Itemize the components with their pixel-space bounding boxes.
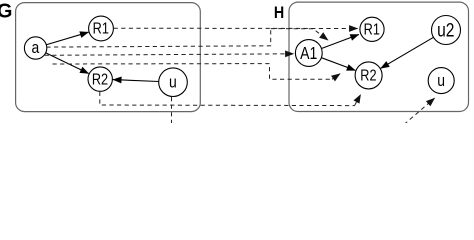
edge A1->R2 (H)	[321, 58, 355, 71]
node A1 (H)	[295, 40, 322, 67]
dashed edge-map a-R2 edge to A1-R2 edge	[53, 64, 341, 80]
svg-text:A1: A1	[300, 43, 317, 63]
svg-text:H: H	[274, 4, 284, 22]
svg-text:R1: R1	[364, 21, 380, 38]
node R2 (H)	[355, 62, 382, 89]
dashed edge-map a-R1 edge to A1-R1 edge	[46, 29, 328, 47]
node a (G)	[24, 37, 46, 59]
node u2 (H)	[432, 16, 461, 45]
edge A1->R1 (H)	[322, 35, 359, 49]
dashed morphism u(G) to u(H), runs below the figure	[172, 97, 435, 125]
node R1 (G)	[89, 16, 114, 41]
dashed morphism a(G) to A1(H)	[45, 54, 294, 56]
node u (G)	[159, 68, 188, 97]
svg-text:G: G	[0, 0, 12, 22]
svg-text:u2: u2	[437, 19, 454, 41]
graph box G	[16, 3, 201, 112]
svg-text:R1: R1	[93, 20, 109, 37]
edge u2->R2 (H)	[381, 37, 434, 68]
node R1 (H)	[360, 17, 384, 41]
dashed morphism R1(G) to R1(H)	[114, 27, 358, 29]
svg-text:R2: R2	[92, 71, 108, 88]
dashed morphism R2(G) to R2(H)	[100, 92, 361, 106]
svg-text:u: u	[437, 72, 445, 91]
node R2 (G)	[88, 67, 112, 91]
edge a->R2 (G)	[46, 53, 89, 74]
graph box H	[289, 2, 469, 111]
node u (H)	[428, 68, 454, 94]
edge a->R1 (G)	[46, 32, 89, 45]
svg-text:R2: R2	[360, 68, 376, 85]
svg-text:a: a	[32, 39, 40, 58]
svg-text:u: u	[169, 73, 177, 92]
edge u->R2 (G)	[113, 80, 159, 82]
